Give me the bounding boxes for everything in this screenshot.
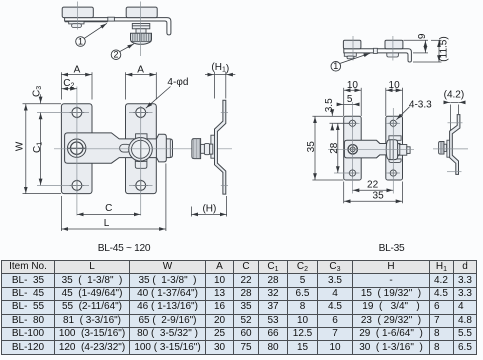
stem below knob: [389, 159, 401, 163]
slide bar with bolt: [65, 133, 173, 163]
plate hole top-left: [72, 108, 82, 118]
dim A left ext lines: [60, 72, 62, 99]
svg-text:3.5: 3.5: [324, 98, 335, 112]
vertical center line right holes: [140, 106, 142, 216]
keeper band: [447, 140, 450, 157]
dim 35 bottom line: [344, 200, 403, 202]
dim 3.5 arrows: [331, 111, 333, 116]
svg-text:1: 1: [78, 36, 83, 46]
keeper cap: [156, 134, 166, 162]
bar lower plate line: [65, 21, 108, 23]
knurl knob profile: [439, 142, 444, 155]
right block tab: [387, 53, 399, 57]
dim 10 left ext: [343, 88, 345, 116]
svg-text:BL-45 ~ 120: BL-45 ~ 120: [98, 243, 151, 254]
svg-text:2: 2: [113, 50, 118, 60]
right plate: [386, 116, 403, 180]
plate hole bottom-right: [136, 181, 146, 191]
dim 11.5 line: [438, 40, 440, 62]
strap above knob: [136, 134, 147, 140]
bolt shaft: [204, 144, 209, 155]
svg-text:C: C: [105, 203, 112, 214]
dim H ext lines: [190, 207, 192, 217]
knurled knob (profile): [192, 139, 201, 159]
hole ticks: [334, 123, 400, 173]
Z profile: [450, 115, 460, 175]
svg-text:BL-35: BL-35: [379, 243, 405, 254]
dim C line: [77, 213, 141, 215]
knob outer circle: [129, 138, 153, 162]
svg-text:C1: C1: [32, 142, 44, 153]
svg-text:10: 10: [389, 80, 401, 91]
bar sleeve joint: [108, 17, 115, 21]
side view slide bar with right L-hook: [65, 18, 171, 35]
rivet ticks: [448, 122, 463, 124]
balloon 1: [84, 23, 107, 38]
svg-text:C2: C2: [63, 78, 74, 90]
knob stem (side): [132, 24, 150, 29]
dimension table: [1, 260, 477, 355]
bolt shaft right of knob: [400, 145, 407, 156]
dim 35 left ext: [312, 115, 329, 117]
dim L ext lines: [60, 196, 62, 231]
dim 10 right ext: [385, 88, 387, 116]
rivet tick top: [221, 112, 228, 114]
svg-text:1: 1: [333, 61, 338, 71]
hole center ticks: [37, 113, 153, 186]
left block lower tab: [69, 21, 84, 24]
leader 4-3.3: [396, 107, 409, 120]
knob inner circle: [132, 140, 150, 158]
dim 9 ext lines: [404, 39, 429, 41]
svg-text:A: A: [137, 65, 144, 76]
svg-text:10: 10: [347, 80, 359, 91]
dim 5 arrows: [339, 103, 344, 105]
knob neck taper: [398, 143, 400, 156]
plate hole top-right: [136, 108, 146, 118]
dim 9 line: [424, 40, 426, 53]
bolt tip inner line: [169, 139, 171, 157]
rivet tick bottom: [221, 184, 228, 186]
dim W ext lines: [23, 103, 62, 105]
knob barrel: [386, 140, 397, 160]
main horizontal center line: [54, 148, 232, 150]
svg-text:W: W: [14, 141, 25, 151]
dim 11.5 ext line: [413, 61, 442, 63]
balloon 1: [339, 53, 370, 64]
svg-text:35: 35: [373, 191, 385, 202]
svg-text:35: 35: [306, 141, 317, 153]
leader 4-phi-d: [146, 87, 171, 109]
left block: [343, 40, 361, 48]
dim 10 right line: [386, 89, 403, 91]
dim W line: [25, 104, 27, 194]
side bar with hook: [344, 49, 412, 62]
right mounting block (side): [126, 7, 157, 18]
left plate: [61, 104, 92, 194]
plate hole top-right: [390, 120, 396, 126]
right block: [385, 40, 403, 48]
dim A left line: [61, 74, 92, 76]
dim 10 left line: [344, 89, 362, 91]
dim 4.2 ext: [449, 105, 451, 132]
svg-text:(11.5): (11.5): [439, 36, 450, 61]
dim C2 line: [61, 88, 77, 90]
dim C1 line: [40, 113, 42, 186]
washer: [444, 144, 447, 151]
bar big hole: [68, 139, 86, 157]
svg-text:L: L: [104, 218, 110, 229]
knurled knob flange (side): [131, 33, 152, 44]
bar slot ear: [120, 144, 131, 152]
left mounting block (side): [62, 7, 93, 18]
dim A right line: [126, 74, 157, 76]
strap above knob: [389, 136, 401, 141]
left block tab: [344, 53, 356, 56]
dim L line: [61, 228, 165, 230]
dim 28 line: [337, 123, 339, 173]
dim H1 arrows: [205, 74, 214, 76]
nut: [210, 144, 213, 154]
washer: [201, 144, 205, 153]
svg-text:9: 9: [417, 33, 428, 39]
center lines: [352, 36, 354, 61]
svg-text:(4.2): (4.2): [444, 90, 465, 101]
bar big hole: [348, 145, 357, 154]
bar sleeve: [373, 48, 377, 53]
svg-text:28: 28: [329, 142, 340, 154]
svg-text:4-3.3: 4-3.3: [409, 99, 432, 110]
dim 3.5 ext: [330, 115, 344, 117]
left plate: [344, 116, 362, 180]
dim H line: [191, 213, 226, 215]
dim A right ext lines: [125, 72, 127, 99]
svg-text:A: A: [74, 65, 81, 76]
plate hole bottom-right: [390, 170, 396, 176]
center lines: [352, 102, 354, 194]
bar taper lines: [376, 140, 379, 158]
dim 22 line: [353, 189, 394, 191]
dim C3 arrow: [40, 94, 42, 103]
knob neck (side): [136, 29, 146, 34]
dim 4.2 arrows: [445, 101, 450, 103]
vertical center line left holes: [76, 87, 78, 216]
plate hole bottom-left: [72, 181, 82, 191]
plate hole bottom-left: [349, 170, 355, 176]
center line: [433, 148, 468, 150]
plate hole top-left: [349, 120, 355, 126]
svg-text:C3: C3: [31, 86, 43, 97]
center line right block: [139, 2, 141, 57]
dim H1 ext lines: [214, 72, 216, 99]
dim 35 left line: [314, 116, 316, 180]
svg-text:(H1): (H1): [211, 62, 229, 75]
keeper profile band: [211, 135, 215, 158]
dim 35 bottom ext: [343, 182, 345, 204]
right plate: [126, 104, 157, 194]
svg-text:4-φd: 4-φd: [167, 77, 188, 88]
center line left block: [77, 2, 79, 30]
slide bar: [344, 140, 400, 158]
svg-text:5: 5: [347, 94, 353, 105]
svg-text:(H): (H): [202, 203, 216, 214]
bolt tip: [407, 147, 410, 154]
balloon 2: [119, 44, 134, 52]
stem below knob: [135, 159, 147, 169]
Z profile plate: [215, 100, 226, 194]
svg-text:22: 22: [367, 180, 379, 191]
